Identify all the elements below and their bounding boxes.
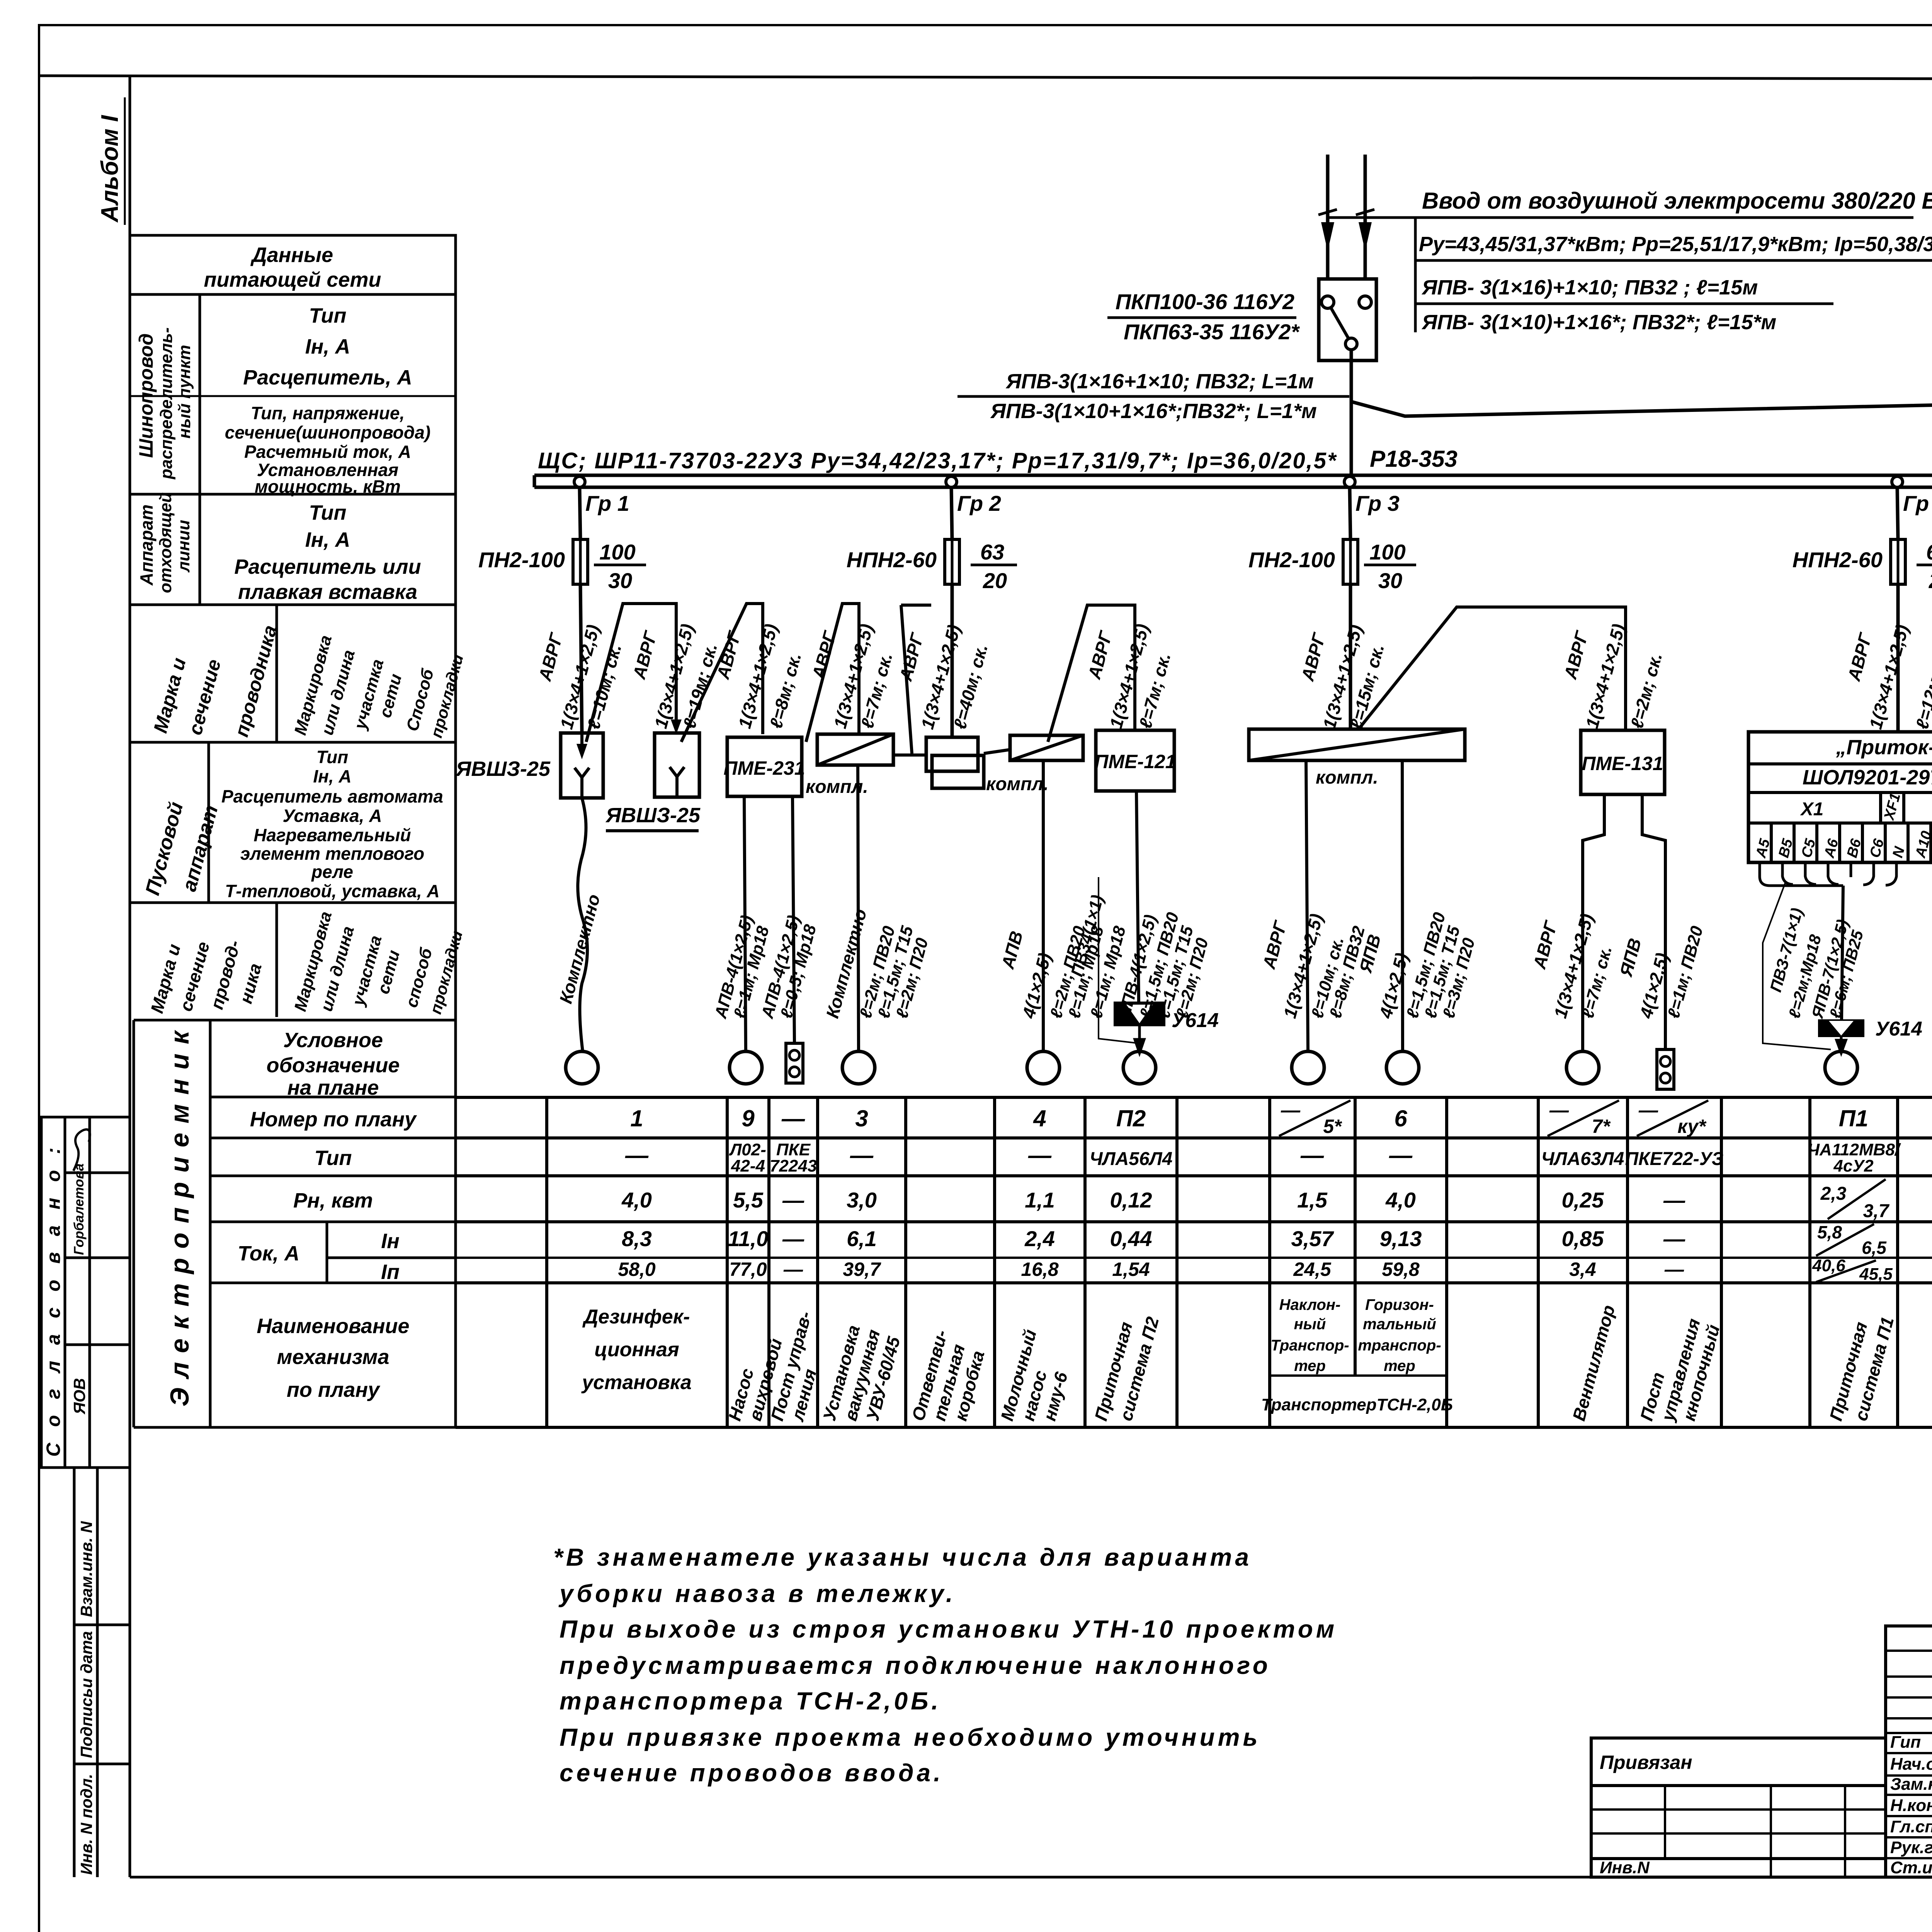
svg-text:НПН2-60: НПН2-60 <box>847 548 937 572</box>
starter ПМЕ-231 <box>727 737 802 796</box>
junction Гр2 <box>946 476 957 487</box>
svg-text:Iп: Iп <box>381 1260 400 1284</box>
svg-text:1,54: 1,54 <box>1112 1259 1150 1280</box>
wire ПМЕ-121 down to У614 <box>1136 791 1139 1002</box>
terminal cells <box>1771 823 1932 862</box>
Iп row values <box>618 1259 1932 1280</box>
svg-text:Гр 4: Гр 4 <box>1903 491 1932 515</box>
svg-text:Расцепитель или: Расцепитель или <box>234 555 421 578</box>
junction Гр1 <box>574 476 585 487</box>
fuse labels <box>478 548 1932 572</box>
svg-text:ПМЕ-121: ПМЕ-121 <box>1094 751 1176 772</box>
svg-text:Зам.н.о.: Зам.н.о. <box>1890 1775 1932 1794</box>
svg-text:Гип: Гип <box>1890 1733 1921 1752</box>
svg-text:П2: П2 <box>1116 1105 1146 1131</box>
svg-text:42-4: 42-4 <box>731 1156 765 1175</box>
svg-text:питающей сети: питающей сети <box>204 268 381 291</box>
wire ПМЕ-131 to load 7 <box>1583 794 1604 1051</box>
label leader line <box>1099 877 1139 1043</box>
wire ПМЕ-131 to button post <box>1642 794 1665 1049</box>
svg-text:Тип: Тип <box>309 304 347 327</box>
svg-text:—: — <box>1663 1188 1685 1212</box>
svg-text:30: 30 <box>608 568 632 593</box>
svg-text:Наклон-: Наклон- <box>1279 1296 1341 1313</box>
svg-text:ЯПВ- 3(1×16)+1×10; ПВ32 ;: ЯПВ- 3(1×16)+1×10; ПВ32 ; ℓ=15м <box>1421 276 1758 299</box>
svg-text:8,3: 8,3 <box>622 1226 652 1251</box>
cable run edge <box>901 605 912 753</box>
svg-text:3,0: 3,0 <box>847 1188 877 1212</box>
svg-text:4сУ2: 4сУ2 <box>1833 1156 1874 1175</box>
cable to ПМЕ-121 <box>1048 605 1135 742</box>
load circle 9 <box>730 1051 762 1084</box>
svg-text:3,57: 3,57 <box>1291 1226 1335 1251</box>
svg-text:—: — <box>781 1105 805 1131</box>
svg-text:30: 30 <box>1378 568 1402 593</box>
svg-text:100: 100 <box>1369 540 1405 564</box>
svg-text:ПМЕ-231: ПМЕ-231 <box>723 757 805 779</box>
svg-text:по плану: по плану <box>287 1378 381 1401</box>
leader <box>1763 881 1831 1049</box>
wire: switch to bus drop <box>1350 350 1353 475</box>
Рн row values <box>621 1188 1932 1212</box>
load circle 6 <box>1386 1051 1419 1084</box>
slashed number cells 5* 7* ку* <box>1279 1100 1708 1136</box>
svg-text:Н.контр.: Н.контр. <box>1890 1796 1932 1815</box>
data table grid <box>456 1097 1932 1427</box>
svg-text:4,0: 4,0 <box>621 1188 652 1212</box>
svg-text:У614: У614 <box>1875 1018 1922 1040</box>
svg-text:ПН2-100: ПН2-100 <box>478 548 565 572</box>
svg-text:—: — <box>1549 1099 1569 1121</box>
svg-text:2,4: 2,4 <box>1024 1226 1055 1251</box>
switch box with fuse (компл) for load 3 <box>817 734 893 765</box>
svg-text:Тип: Тип <box>316 747 349 767</box>
наименование row <box>581 1306 692 1394</box>
svg-text:3: 3 <box>855 1105 868 1131</box>
svg-text:ЧЛА56Л4: ЧЛА56Л4 <box>1090 1149 1173 1169</box>
П1 Iн diag cell <box>1816 1224 1874 1256</box>
svg-text:16,8: 16,8 <box>1021 1259 1059 1280</box>
cable ПМЕ-231 to switch компл <box>806 604 859 742</box>
junction Гр4 <box>1892 476 1903 487</box>
svg-text:—: — <box>1281 1099 1301 1121</box>
svg-text:механизма: механизма <box>277 1345 389 1369</box>
svg-text:0,25: 0,25 <box>1562 1188 1604 1212</box>
svg-text:63: 63 <box>1926 540 1932 564</box>
svg-text:Iн, А: Iн, А <box>305 528 350 551</box>
svg-text:5,5: 5,5 <box>733 1188 764 1212</box>
wire to load 3 <box>858 765 859 1051</box>
svg-text:—: — <box>1389 1142 1413 1168</box>
svg-text:Р18-353: Р18-353 <box>1370 446 1458 472</box>
svg-text:6,1: 6,1 <box>847 1226 877 1251</box>
wire Гр2 fuse to junction box <box>951 584 954 737</box>
load circle П1 <box>1825 1051 1857 1084</box>
svg-text:Транспор-: Транспор- <box>1270 1337 1349 1354</box>
svg-text:компл.: компл. <box>986 774 1049 794</box>
svg-text:тер: тер <box>1384 1357 1415 1374</box>
wavy wire to load 1 <box>578 798 587 1051</box>
button post symbol ку <box>1657 1049 1674 1089</box>
svg-text:уборки навоза в тележку.: уборки навоза в тележку. <box>558 1580 956 1607</box>
svg-text:9,13: 9,13 <box>1380 1226 1422 1251</box>
wire: diagonal to lighting feed <box>1352 397 1932 416</box>
svg-text:Iн: Iн <box>381 1230 400 1253</box>
wire to load 5 <box>1306 760 1308 1051</box>
box ЯВШЗ-25 no.1 <box>561 733 603 798</box>
svg-text:100: 100 <box>599 540 635 564</box>
arrowhead L1 <box>1321 222 1334 251</box>
svg-text:Альбом I: Альбом I <box>97 114 123 223</box>
underline <box>957 395 1349 398</box>
svg-text:Х1: Х1 <box>1800 799 1824 820</box>
album underline <box>124 97 126 225</box>
wire Гр1 fuse to ЯВШЗ-25 no.1 <box>580 584 582 733</box>
group labels <box>585 491 1932 515</box>
svg-text:Ст.инж.: Ст.инж. <box>1890 1858 1932 1877</box>
starter ПМЕ-131 <box>1581 730 1665 794</box>
svg-text:Гр 2: Гр 2 <box>957 491 1001 515</box>
cable ЯВШЗ2 to ПМЕ-231 <box>681 604 763 742</box>
cable to ПМЕ-131 <box>1359 607 1626 731</box>
svg-text:—: — <box>782 1188 804 1212</box>
branch drops to fuses <box>580 487 1932 539</box>
svg-text:3,4: 3,4 <box>1569 1259 1596 1280</box>
junction Гр3 <box>1344 476 1355 487</box>
svg-text:ПКЕ722-УЗ: ПКЕ722-УЗ <box>1625 1149 1724 1169</box>
svg-text:Шинопровод: Шинопровод <box>135 333 157 458</box>
junction box (ответвительная коробка) <box>926 737 978 771</box>
svg-text:40,6: 40,6 <box>1812 1256 1845 1275</box>
underline <box>1415 259 1932 262</box>
title block left labels <box>1890 1733 1932 1877</box>
arrowhead L2 <box>1359 222 1372 251</box>
button post symbol (Пост управления) <box>786 1043 803 1083</box>
svg-text:ПКП100-36 116У2: ПКП100-36 116У2 <box>1116 289 1294 314</box>
svg-text:0,12: 0,12 <box>1110 1188 1152 1212</box>
svg-text:—: — <box>850 1142 874 1168</box>
bus ЩС top line <box>534 474 1932 477</box>
svg-text:1,1: 1,1 <box>1025 1188 1055 1212</box>
Iн row values <box>622 1226 1932 1251</box>
svg-text:Уставка, А: Уставка, А <box>283 806 382 826</box>
svg-text:Аппарат: Аппарат <box>136 504 156 586</box>
svg-text:Подписьи дата: Подписьи дата <box>77 1631 95 1758</box>
svg-text:Инв.N: Инв.N <box>1600 1858 1650 1877</box>
svg-text:ЯВШЗ-25: ЯВШЗ-25 <box>605 804 701 827</box>
svg-text:элемент теплового: элемент теплового <box>240 844 424 864</box>
svg-text:предусматривается подключение: предусматривается подключение наклонного <box>560 1651 1271 1679</box>
svg-text:25: 25 <box>1929 568 1932 593</box>
left margin strips <box>41 1117 130 1877</box>
fuse Гр2 <box>945 539 959 584</box>
svg-text:обозначение: обозначение <box>267 1054 400 1077</box>
drawing frame left line <box>129 76 131 1877</box>
svg-text:распределитель-: распределитель- <box>157 327 176 480</box>
svg-text:3,7: 3,7 <box>1863 1201 1890 1221</box>
signature squiggle <box>73 1129 90 1171</box>
svg-text:ПН2-100: ПН2-100 <box>1248 548 1335 572</box>
title block grid <box>1886 1626 1932 1877</box>
svg-text:59,8: 59,8 <box>1382 1259 1420 1280</box>
svg-text:Рн, квт: Рн, квт <box>293 1189 373 1212</box>
svg-text:ционная: ционная <box>594 1338 679 1361</box>
wire ПМЕ-231 to load 9 <box>744 796 746 1051</box>
svg-text:ШОЛ9201-297-ЧУЗ: ШОЛ9201-297-ЧУЗ <box>1803 766 1932 789</box>
svg-text:Наименование: Наименование <box>257 1315 409 1338</box>
switch box with fuse (компл) for load 4 <box>1010 735 1083 760</box>
incoming feed line L2 <box>1364 155 1367 279</box>
wire to right switch <box>984 750 1010 753</box>
fuse Гр3 <box>1343 539 1358 584</box>
svg-text:компл.: компл. <box>1316 767 1378 788</box>
svg-text:5,8: 5,8 <box>1817 1222 1842 1242</box>
bus ЩС bottom line <box>534 486 1932 489</box>
svg-text:ЩС; ШР11-73703-22УЗ Ру=34,4: ЩС; ШР11-73703-22УЗ Ру=34,42/23,17*; Рр=… <box>538 448 1337 473</box>
left table texts <box>135 243 467 1406</box>
notes text <box>553 1543 1337 1787</box>
svg-text:—: — <box>783 1259 803 1280</box>
svg-text:1,5: 1,5 <box>1297 1188 1328 1212</box>
svg-text:Горизон-: Горизон- <box>1365 1296 1434 1313</box>
starter ПМЕ-121 <box>1096 730 1174 791</box>
svg-text:Расцепитель, А: Расцепитель, А <box>243 366 412 389</box>
svg-text:4,0: 4,0 <box>1385 1188 1416 1212</box>
svg-text:Привязан: Привязан <box>1600 1752 1692 1773</box>
наклонный/горизонтальный транспортер cells <box>1261 1296 1453 1414</box>
fuse ratings fractions <box>599 540 1932 593</box>
svg-text:9: 9 <box>742 1105 755 1131</box>
svg-text:Расцепитель автомата: Расцепитель автомата <box>221 786 443 806</box>
svg-text:НПН2-60: НПН2-60 <box>1793 548 1883 572</box>
underline <box>1415 303 1833 305</box>
svg-text:1: 1 <box>630 1105 643 1131</box>
drawing frame top line <box>39 76 1932 80</box>
fuse Гр1 <box>573 539 588 584</box>
svg-text:Нач.отд.: Нач.отд. <box>1890 1755 1932 1774</box>
svg-text:—: — <box>1638 1099 1658 1121</box>
svg-text:„Приток-1": „Приток-1" <box>1835 736 1932 759</box>
svg-text:сечение(шинопровода): сечение(шинопровода) <box>225 422 430 442</box>
svg-text:транспор-: транспор- <box>1358 1337 1441 1354</box>
wire to У614 <box>1842 886 1843 1019</box>
tick L2 <box>1356 209 1374 215</box>
load circle 4 <box>1027 1051 1060 1084</box>
svg-text:Ввод от воздушной электросети: Ввод от воздушной электросети 380/220 В <box>1422 188 1932 214</box>
wire to load 6 <box>1402 760 1403 1051</box>
load circle 3 <box>842 1051 875 1084</box>
svg-text:72243: 72243 <box>770 1156 817 1175</box>
terminal drop bracket <box>1760 862 1896 886</box>
fuse Гр4 <box>1891 539 1905 584</box>
svg-text:транспортера ТСН-2,0Б.: транспортера ТСН-2,0Б. <box>560 1687 941 1715</box>
svg-text:—: — <box>1663 1226 1685 1251</box>
svg-text:Гл.спец.: Гл.спец. <box>1890 1817 1932 1836</box>
switch ПКП box <box>1319 279 1376 361</box>
svg-text:отходящей: отходящей <box>156 492 175 593</box>
svg-text:0,85: 0,85 <box>1562 1226 1604 1251</box>
svg-text:тальный: тальный <box>1363 1316 1436 1333</box>
load circle 1 <box>566 1051 598 1084</box>
svg-text:ЯВШЗ-25: ЯВШЗ-25 <box>455 757 551 781</box>
svg-text:ЯПВ- 3(1×10)+1×16*; ПВ32*;: ЯПВ- 3(1×10)+1×16*; ПВ32*; ℓ=15*м <box>1421 311 1776 334</box>
номер row values <box>630 1105 1932 1131</box>
svg-text:—: — <box>625 1142 649 1168</box>
svg-text:7*: 7* <box>1592 1116 1611 1137</box>
svg-text:мощность, кВт: мощность, кВт <box>255 476 401 497</box>
svg-text:2,3: 2,3 <box>1820 1184 1847 1204</box>
svg-text:6,5: 6,5 <box>1862 1238 1887 1258</box>
svg-text:ПМЕ-131: ПМЕ-131 <box>1582 753 1663 774</box>
svg-text:ный пункт: ный пункт <box>175 345 194 439</box>
svg-text:Ру=43,45/31,37*кВт; Рр=25,51/1: Ру=43,45/31,37*кВт; Рр=25,51/17,9*кВт; I… <box>1419 233 1932 256</box>
svg-text:Условное: Условное <box>283 1029 383 1052</box>
svg-text:Горбалетова: Горбалетова <box>71 1163 87 1255</box>
svg-text:6: 6 <box>1394 1105 1407 1131</box>
drawing frame bottom line <box>130 1876 1932 1879</box>
svg-text:Нагревательный: Нагревательный <box>253 825 411 845</box>
bus left cap <box>533 475 536 487</box>
svg-text:Гр 1: Гр 1 <box>585 491 629 515</box>
wire ПМЕ-231 to button post <box>793 796 794 1043</box>
svg-text:Гр 3: Гр 3 <box>1355 491 1400 515</box>
svg-text:5*: 5* <box>1323 1116 1342 1137</box>
svg-text:—: — <box>1028 1142 1052 1168</box>
svg-text:Номер по плану: Номер по плану <box>250 1108 417 1131</box>
svg-text:При привязке проекта необходим: При привязке проекта необходимо уточнить <box>560 1723 1261 1751</box>
svg-text:ПКП63-35 116У2*: ПКП63-35 116У2* <box>1124 320 1300 344</box>
tick L1 <box>1318 209 1337 215</box>
svg-text:—: — <box>1664 1259 1684 1280</box>
svg-text:линии: линии <box>174 520 193 573</box>
arrow into load П1 <box>1837 1037 1846 1053</box>
svg-text:ЯПВ-3(1×10+1×16*;ПВ32*; L=1*м: ЯПВ-3(1×10+1×16*;ПВ32*; L=1*м <box>990 400 1317 423</box>
switch pole circle 1 <box>1321 296 1334 308</box>
svg-text:на плане: на плане <box>287 1076 379 1099</box>
svg-text:Т-тепловой, уставка, А: Т-тепловой, уставка, А <box>225 881 440 901</box>
svg-text:63: 63 <box>980 540 1004 564</box>
wire Гр4 fuse to Приток-1 <box>1896 584 1900 732</box>
svg-text:П1: П1 <box>1839 1105 1869 1131</box>
cable ЯВШЗ1 to ЯВШЗ2 <box>586 604 676 742</box>
svg-text:Данные: Данные <box>250 243 333 267</box>
svg-text:24,5: 24,5 <box>1293 1259 1332 1280</box>
switch pole circle 2 <box>1359 296 1371 308</box>
svg-text:Тип, напряжение,: Тип, напряжение, <box>251 403 405 423</box>
cabinet Приток-1 <box>1748 732 1932 862</box>
svg-text:11,0: 11,0 <box>728 1226 769 1251</box>
wire Гр3 fuse to switch <box>1349 584 1352 729</box>
underline <box>1328 216 1913 219</box>
svg-text:При выходе из строя установки: При выходе из строя установки УТН-10 про… <box>560 1615 1337 1643</box>
switch blade <box>1331 308 1349 338</box>
device У614 (plug socket) <box>1114 1002 1165 1026</box>
arrow into load П2 <box>1135 1026 1144 1053</box>
svg-text:Iн, А: Iн, А <box>313 766 351 786</box>
П1 Iп diag cell <box>1816 1260 1876 1282</box>
svg-text:ТранспортерТСН-2,0Б: ТранспортерТСН-2,0Б <box>1261 1395 1453 1414</box>
П1 Рн diag cell <box>1828 1179 1886 1219</box>
svg-text:4: 4 <box>1033 1105 1046 1131</box>
device У614 (plug socket) <box>1818 1019 1864 1037</box>
svg-text:Тип: Тип <box>309 501 347 524</box>
svg-text:Инв. N подл.: Инв. N подл. <box>77 1774 95 1875</box>
svg-text:реле: реле <box>311 862 353 882</box>
annotation block left border <box>1414 218 1417 332</box>
svg-text:тер: тер <box>1294 1357 1326 1374</box>
load circle П2 <box>1123 1051 1156 1084</box>
left header table grid <box>130 235 456 1427</box>
svg-text:сечение проводов ввода.: сечение проводов ввода. <box>560 1759 944 1787</box>
svg-text:ЯОВ: ЯОВ <box>70 1378 88 1415</box>
svg-text:Электроприемник: Электроприемник <box>165 1022 194 1406</box>
svg-text:39,7: 39,7 <box>843 1259 881 1280</box>
svg-text:ЯПВ-3(1×16+1×10; ПВ32; L=1м: ЯПВ-3(1×16+1×10; ПВ32; L=1м <box>1005 370 1314 393</box>
svg-text:45,5: 45,5 <box>1859 1265 1893 1284</box>
Привязан table <box>1591 1738 1886 1877</box>
switch hinge circle <box>1345 338 1357 350</box>
svg-text:—: — <box>782 1226 804 1251</box>
wire to left switch <box>893 753 926 757</box>
svg-text:ЧЛА63Л4: ЧЛА63Л4 <box>1541 1149 1624 1169</box>
svg-text:0,44: 0,44 <box>1110 1226 1152 1251</box>
svg-text:Ток, А: Ток, А <box>238 1242 299 1265</box>
svg-text:ку*: ку* <box>1677 1116 1707 1137</box>
svg-text:Взам.инв. N: Взам.инв. N <box>77 1520 95 1617</box>
wide switch box with fuse (компл) <box>1249 729 1465 760</box>
svg-text:ный: ный <box>1294 1316 1326 1333</box>
box ЯВШЗ-25 no.2 <box>655 733 699 797</box>
svg-text:плавкая вставка: плавкая вставка <box>238 580 417 604</box>
svg-text:77,0: 77,0 <box>729 1259 767 1280</box>
svg-text:*В знаменателе указаны числа д: *В знаменателе указаны числа для вариант… <box>553 1543 1252 1571</box>
тип row values <box>625 1140 1932 1175</box>
load circle 7 <box>1566 1051 1599 1084</box>
svg-text:Iн, А: Iн, А <box>305 335 350 358</box>
load circle 5 <box>1292 1051 1324 1084</box>
svg-text:58,0: 58,0 <box>618 1259 656 1280</box>
svg-text:Тип: Тип <box>315 1146 352 1170</box>
svg-text:Расчетный ток, А: Расчетный ток, А <box>244 442 411 462</box>
svg-text:Рук.гр.: Рук.гр. <box>1890 1838 1932 1857</box>
svg-text:установка: установка <box>581 1371 692 1394</box>
switch label underline <box>1107 316 1296 319</box>
wire to load 4 <box>1042 760 1045 1051</box>
incoming feed line L1 <box>1326 155 1330 279</box>
svg-text:Дезинфек-: Дезинфек- <box>582 1306 690 1328</box>
svg-text:—: — <box>1300 1142 1324 1168</box>
svg-text:20: 20 <box>983 568 1007 593</box>
